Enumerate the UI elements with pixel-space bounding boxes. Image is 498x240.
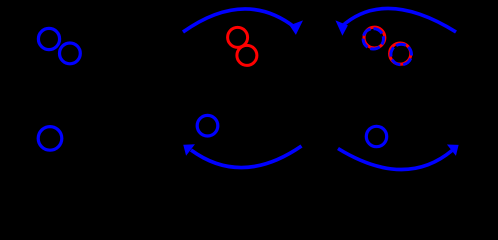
highlight circle (red) middle structure, upper atom bbox=[228, 27, 248, 47]
highlight circle (red under blue) right structure, second atom bbox=[390, 43, 411, 64]
highlight circle (blue over red, dashed) right structure, second atom bbox=[391, 44, 412, 65]
curved reaction arrow, bottom right (middle structure to right), pointing right bbox=[338, 145, 458, 170]
highlight circle (red under blue) right structure, upper atom bbox=[364, 27, 385, 48]
highlight circle (blue) left structure, upper atom bbox=[38, 28, 59, 49]
highlight circle (blue) left structure, second atom bbox=[60, 43, 81, 64]
highlight circle (red) middle structure, second atom bbox=[237, 45, 257, 65]
curved reaction arrow, top left (left structure to middle), pointing right bbox=[183, 9, 302, 34]
highlight circle (blue over red, dashed) right structure, upper atom bbox=[363, 29, 383, 49]
curved reaction arrow, bottom middle (middle structure to left), pointing left bbox=[184, 145, 302, 168]
highlight circle (blue) right structure, lower atom bbox=[366, 126, 386, 146]
curved reaction arrow, top right (right structure to middle), pointing left bbox=[336, 8, 456, 34]
highlight circle (blue) left structure, lower atom bbox=[38, 127, 62, 151]
highlight circle (blue) middle structure, lower atom bbox=[197, 115, 218, 136]
